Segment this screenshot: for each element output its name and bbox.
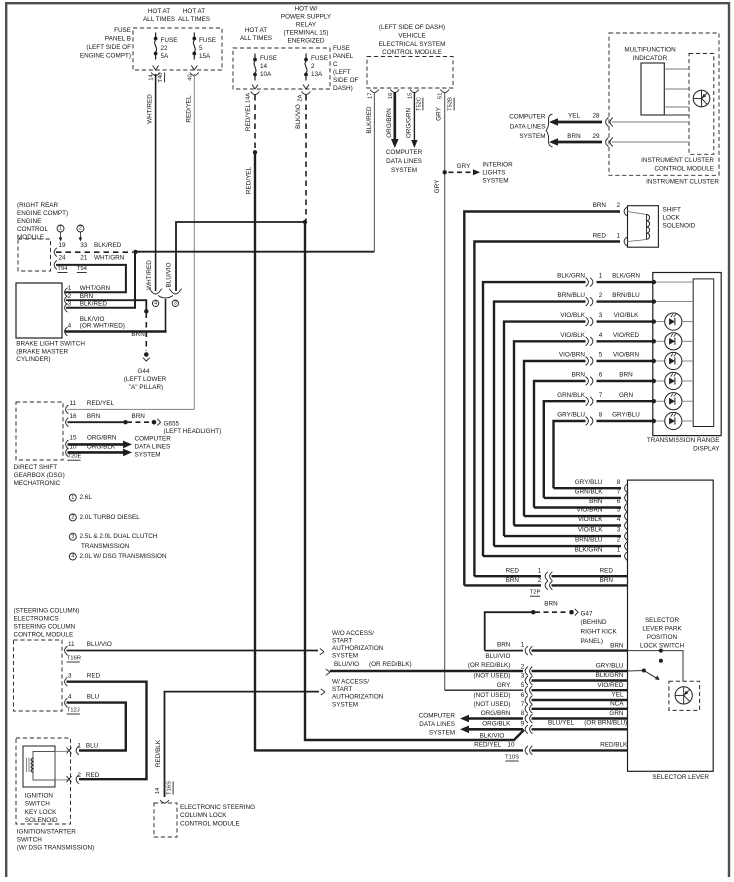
svg-text:40: 40: [187, 74, 193, 81]
svg-text:SYSTEM: SYSTEM: [429, 730, 455, 737]
footnote 1: 2.6L: [69, 494, 76, 501]
fuse panel B exit connector pin 40: [191, 66, 194, 71]
svg-text:17: 17: [368, 93, 374, 100]
svg-text:BLU/YEL: BLU/YEL: [548, 720, 575, 727]
connector on display row 3: [586, 317, 589, 326]
fuse F22 5A: [155, 33, 157, 39]
svg-text:15: 15: [70, 435, 78, 442]
svg-text:BRN/BLU: BRN/BLU: [612, 292, 640, 299]
DSG pin 10 connector and labels ORG/BLK: [66, 448, 69, 457]
indicator lamp symbol (clock): [693, 90, 710, 107]
svg-text:DIRECT SHIFT: DIRECT SHIFT: [14, 464, 58, 471]
svg-text:4: 4: [154, 301, 157, 307]
wire GRY/BLU pin 8 from selector riser to transmission range display: [554, 421, 586, 488]
svg-text:T94: T94: [57, 266, 68, 272]
svg-text:16: 16: [388, 92, 394, 99]
svg-text:TRANSMISSION RANGE: TRANSMISSION RANGE: [647, 437, 720, 444]
svg-text:FUSE: FUSE: [333, 45, 350, 52]
DSG pin 11 connector and labels RED/YEL: [66, 405, 69, 414]
wire row 7 to selector lever connector (lower): [544, 497, 621, 499]
svg-text:"A" PILLAR): "A" PILLAR): [129, 384, 163, 391]
svg-text:PANEL: PANEL: [333, 53, 354, 60]
svg-text:INSTRUMENT CLUSTER: INSTRUMENT CLUSTER: [646, 178, 719, 185]
svg-text:(NOT USED): (NOT USED): [474, 701, 511, 708]
footnote 4: 2.0L w/ DSG transmission: [69, 553, 76, 560]
svg-text:14A: 14A: [245, 93, 251, 104]
svg-text:SYSTEM: SYSTEM: [332, 701, 358, 708]
svg-text:SWITCH: SWITCH: [17, 837, 42, 844]
svg-text:(OR RED/BLK): (OR RED/BLK): [369, 661, 412, 668]
svg-text:RED: RED: [87, 672, 101, 679]
svg-text:HOT AT: HOT AT: [148, 8, 170, 15]
svg-text:T94: T94: [77, 266, 88, 272]
svg-text:10: 10: [508, 742, 516, 749]
wire BLK/GRN pin 1 from selector riser to transmission range display: [483, 282, 586, 556]
svg-text:DATA LINES: DATA LINES: [386, 158, 422, 165]
wire VIO/BLK pin 4 from selector riser to transmission range display: [514, 341, 586, 525]
svg-text:8: 8: [521, 710, 525, 717]
svg-text:RED: RED: [506, 568, 520, 575]
svg-text:3: 3: [174, 301, 177, 307]
svg-text:16: 16: [70, 413, 78, 420]
solenoid lead to pin 2: [55, 779, 68, 781]
wire BRN from brake pin 2 to ground G44 (solid then dashed): [66, 300, 146, 310]
svg-text:(W/ DSG TRANSMISSION): (W/ DSG TRANSMISSION): [17, 845, 94, 852]
svg-text:21: 21: [80, 254, 88, 261]
wire BRN/BLU pin 2 from selector riser to transmission range display: [494, 302, 586, 546]
fuse F5 15A: [193, 33, 195, 39]
svg-text:(TERMINAL 15): (TERMINAL 15): [284, 30, 329, 37]
wire BLK/VIO from fuse 2 - dashed segment to splice: [305, 95, 307, 220]
svg-text:POSITION: POSITION: [647, 634, 678, 641]
svg-text:SHIFT: SHIFT: [663, 206, 681, 213]
svg-text:IGNITION/STARTER: IGNITION/STARTER: [17, 829, 76, 836]
svg-text:SOLENOID: SOLENOID: [25, 817, 58, 824]
node GRY splice to interior lights: [443, 170, 447, 174]
wire VIO/BLK pin 3 from selector riser to transmission range display: [504, 322, 586, 536]
svg-text:ALL TIMES: ALL TIMES: [143, 16, 175, 23]
svg-text:2.5L & 2.0L DUAL CLUTCH: 2.5L & 2.0L DUAL CLUTCH: [80, 533, 158, 540]
ECM pin connector arcs row 2: [54, 261, 57, 270]
wire BLK/RED solid from splice to VECSM pin 17 riser: [135, 251, 374, 253]
svg-text:NCA: NCA: [610, 701, 624, 708]
svg-text:C: C: [333, 61, 338, 68]
svg-text:W/ ACCESS/: W/ ACCESS/: [332, 679, 369, 686]
svg-text:(LEFT: (LEFT: [333, 69, 351, 76]
svg-text:SELECTOR LEVER: SELECTOR LEVER: [652, 774, 709, 781]
svg-text:ELECTRICAL SYSTEM: ELECTRICAL SYSTEM: [379, 41, 446, 48]
svg-text:GRY/BLU: GRY/BLU: [596, 663, 624, 670]
svg-text:DASH): DASH): [333, 85, 353, 92]
svg-text:CONTROL: CONTROL: [17, 226, 48, 233]
svg-text:RED/YEL: RED/YEL: [474, 742, 502, 749]
svg-text:T10S: T10S: [505, 754, 519, 760]
svg-text:BRN: BRN: [497, 642, 511, 649]
svg-text:3: 3: [521, 673, 525, 680]
svg-text:(LEFT HEADLIGHT): (LEFT HEADLIGHT): [164, 428, 222, 435]
wire YEL 28 thick arrow to computer data lines: [549, 118, 558, 126]
svg-text:VIO/BLK: VIO/BLK: [560, 332, 585, 339]
svg-text:ENGINE COMPT): ENGINE COMPT): [80, 53, 131, 60]
svg-text:3: 3: [71, 534, 74, 540]
svg-text:LEVER PARK: LEVER PARK: [642, 626, 682, 633]
svg-text:7: 7: [599, 392, 603, 399]
svg-text:4: 4: [68, 323, 72, 330]
svg-text:BRN: BRN: [131, 331, 145, 338]
T10S pin 8 row ORG/BRN arrow to computer data lines: [467, 717, 523, 720]
svg-text:COMPUTER: COMPUTER: [419, 713, 456, 720]
svg-text:28: 28: [592, 113, 600, 120]
SCCM pin 3 connector and labels RED: [65, 677, 68, 686]
wire BRN pin 6 from selector riser to transmission range display: [534, 381, 586, 508]
svg-text:ALL TIMES: ALL TIMES: [178, 16, 210, 23]
transmission range display box: [653, 273, 721, 436]
ECM pin connector arcs row 1: [54, 248, 57, 257]
svg-text:BLU/VIO: BLU/VIO: [165, 262, 172, 287]
svg-text:MECHATRONIC: MECHATRONIC: [14, 480, 61, 487]
fuse panel C exit connector 14A: [252, 85, 255, 90]
svg-text:BLU/VIO: BLU/VIO: [485, 653, 510, 660]
svg-text:START: START: [332, 686, 352, 693]
svg-text:BRN: BRN: [80, 293, 94, 300]
svg-text:GRY/BLU: GRY/BLU: [557, 412, 585, 419]
wire ORG/BRN thick arrow to computer data lines (DSG): [68, 443, 124, 446]
node at display box edge row 5: [652, 359, 656, 363]
wire GRN/BLK pin 7 from selector riser to transmission range display: [544, 401, 586, 498]
T10S pin 2 row BLU/VIO (OR RED/BLK) to GRY/BLU: [326, 669, 330, 672]
svg-text:VIO/BLK: VIO/BLK: [578, 527, 603, 534]
svg-text:VIO/BRN: VIO/BRN: [613, 352, 640, 359]
instrument cluster outer dashed box: [609, 33, 719, 175]
wire BRN from DSG pin 16 to ground G655: [68, 421, 125, 423]
T10S pin 1 row BRN: [485, 650, 523, 652]
park switch fixed contact: [659, 659, 663, 663]
wire RED from riser through T2P to selector lever: [474, 575, 541, 577]
brake switch pin 1 connector and label WHT/GRN: [65, 288, 68, 297]
svg-text:CONTROL MODULE: CONTROL MODULE: [654, 165, 714, 172]
footnote 3: 2.5L and 2.0L dual clutch transmission: [69, 533, 76, 540]
connector at instrument cluster pin 28: [606, 118, 609, 127]
park position lock switch lamp symbol: [675, 687, 692, 704]
svg-text:ENGINE COMPT): ENGINE COMPT): [17, 210, 68, 217]
svg-text:ENGINE: ENGINE: [17, 218, 41, 225]
svg-text:BRN: BRN: [572, 372, 586, 379]
svg-text:CONTROL MODULE: CONTROL MODULE: [14, 632, 74, 639]
svg-text:COMPUTER: COMPUTER: [386, 149, 423, 156]
svg-text:RED: RED: [593, 232, 607, 239]
svg-text:POWER SUPPLY: POWER SUPPLY: [281, 14, 332, 21]
wire from electronic steering column lock to w/ access arrow: [165, 692, 320, 797]
svg-text:14: 14: [155, 787, 161, 794]
wire RED from SCCM pin 3 to key lock solenoid pin 2: [67, 682, 147, 780]
svg-text:ORG/BLK: ORG/BLK: [482, 721, 511, 728]
svg-text:KEY LOCK: KEY LOCK: [25, 809, 57, 816]
svg-text:ELECTRONICS: ELECTRONICS: [14, 616, 59, 623]
svg-text:2.0L TURBO DIESEL: 2.0L TURBO DIESEL: [80, 514, 141, 521]
svg-text:FUSE: FUSE: [260, 55, 277, 62]
SCCM pin 11 connector and labels BLU/VIO: [65, 646, 68, 655]
fuse F14 10A: [254, 54, 256, 60]
svg-text:T40: T40: [158, 72, 164, 83]
svg-text:BLK/VIO: BLK/VIO: [480, 732, 505, 739]
svg-text:HOT W/: HOT W/: [295, 6, 318, 13]
svg-text:CONTROL MODULE: CONTROL MODULE: [180, 821, 240, 828]
svg-text:11: 11: [68, 641, 75, 648]
svg-text:CYLINDER): CYLINDER): [16, 356, 50, 363]
svg-text:AUTHORIZATION: AUTHORIZATION: [332, 645, 384, 652]
svg-text:GRN/BLK: GRN/BLK: [575, 489, 604, 496]
svg-text:MODULE: MODULE: [17, 234, 44, 241]
DSG pin 16 connector and labels BRN: [66, 418, 69, 427]
park switch internal BRN wire: [628, 651, 684, 681]
svg-text:2: 2: [617, 537, 621, 544]
svg-text:PANEL B: PANEL B: [105, 36, 131, 43]
svg-text:GRY: GRY: [497, 682, 511, 689]
svg-text:VIO/RED: VIO/RED: [597, 682, 624, 689]
svg-text:7: 7: [521, 701, 525, 708]
wire row 4 to selector lever connector (lower): [514, 524, 621, 526]
svg-text:14: 14: [260, 63, 268, 70]
svg-text:11: 11: [70, 400, 77, 407]
svg-text:29: 29: [592, 133, 600, 140]
svg-text:BLK/GRN: BLK/GRN: [557, 273, 585, 280]
svg-text:AUTHORIZATION: AUTHORIZATION: [332, 694, 384, 701]
svg-text:BRN: BRN: [600, 577, 614, 584]
multifunction indicator rectangle: [641, 63, 664, 115]
svg-text:13A: 13A: [311, 71, 323, 78]
svg-text:(RIGHT REAR: (RIGHT REAR: [17, 202, 59, 209]
svg-text:RED/YEL: RED/YEL: [245, 103, 252, 131]
svg-text:G44: G44: [138, 368, 150, 375]
svg-text:19: 19: [58, 242, 66, 249]
svg-text:BRN: BRN: [619, 372, 633, 379]
svg-text:SELECTOR: SELECTOR: [645, 617, 679, 624]
svg-text:GRY: GRY: [434, 179, 441, 193]
svg-text:RELAY: RELAY: [296, 22, 317, 29]
svg-text:BRN: BRN: [132, 413, 146, 420]
LED indicator row 3: [656, 321, 665, 323]
wire row 3 to selector lever connector (lower): [504, 535, 621, 537]
svg-text:IGNITION: IGNITION: [25, 793, 54, 800]
svg-text:WHT/RED: WHT/RED: [146, 260, 153, 290]
wire ORG/BLK thick arrow to computer data lines (DSG): [68, 451, 124, 454]
svg-text:T52C: T52C: [416, 97, 422, 111]
svg-text:SYSTEM: SYSTEM: [482, 177, 508, 184]
svg-text:2.0L W/ DSG TRANSMISSION: 2.0L W/ DSG TRANSMISSION: [80, 553, 167, 560]
fuse F2 13A: [305, 54, 307, 60]
svg-text:ORG/BRN: ORG/BRN: [481, 710, 511, 717]
VECSM pin 17 connector cup: [370, 90, 379, 93]
connector on display row 6: [586, 377, 589, 386]
svg-text:1: 1: [68, 285, 72, 292]
merged wire from connectors 3/4 down to brake switch pin 4: [158, 296, 173, 299]
svg-text:BLK/GRN: BLK/GRN: [612, 273, 640, 280]
wire RED from T2P pin 1 up to shift lock solenoid pin 1: [474, 242, 620, 577]
node at display box edge row 7: [652, 399, 656, 403]
fuse panel C exit connector 2A: [303, 85, 306, 90]
svg-text:(BRAKE MASTER: (BRAKE MASTER: [16, 348, 68, 355]
svg-text:WHT/GRN: WHT/GRN: [94, 254, 125, 261]
wire BRN from riser through T2P to selector lever: [464, 584, 541, 586]
LED indicator row 6: [656, 380, 665, 382]
svg-text:BLK/GRN: BLK/GRN: [575, 547, 603, 554]
SCCM pin 4 connector and labels BLU: [65, 698, 68, 707]
svg-text:GRN: GRN: [609, 710, 624, 717]
fuse panel B dashed box: [133, 28, 222, 70]
svg-text:W/O ACCESS/: W/O ACCESS/: [332, 630, 374, 637]
svg-text:BRN/BLU: BRN/BLU: [575, 537, 603, 544]
svg-text:BLK/RED: BLK/RED: [80, 301, 108, 308]
wire RED/YEL gray from DSG pin 11 to fuse 5 riser: [68, 408, 195, 410]
wire VIO/BRN pin 5 from selector riser to transmission range display: [524, 361, 586, 516]
svg-text:5: 5: [199, 45, 203, 52]
svg-text:BRN: BRN: [506, 577, 520, 584]
svg-text:(LEFT LOWER: (LEFT LOWER: [124, 376, 167, 383]
ground G655 symbol: [152, 420, 157, 425]
VECSM pin 51 connector cup: [440, 90, 449, 93]
svg-text:3: 3: [68, 672, 72, 679]
svg-text:RED/BLK: RED/BLK: [600, 742, 628, 749]
svg-text:BLU/VIO: BLU/VIO: [87, 641, 112, 648]
ignition switch key lock solenoid box: [23, 746, 55, 787]
svg-text:RED/YEL: RED/YEL: [87, 400, 115, 407]
svg-text:1: 1: [617, 547, 621, 554]
svg-text:1: 1: [77, 743, 81, 750]
svg-text:COMPUTER: COMPUTER: [509, 114, 546, 121]
svg-text:4: 4: [68, 693, 72, 700]
svg-text:6: 6: [521, 692, 525, 699]
brake switch pin 4 connector and labels BLK/VIO (OR WHT/RED): [65, 327, 68, 336]
engine control module dashed box: [18, 239, 51, 271]
svg-text:VEHICLE: VEHICLE: [398, 32, 425, 39]
svg-text:BLK/GRN: BLK/GRN: [596, 672, 624, 679]
svg-text:BRN: BRN: [567, 133, 581, 140]
wire BLU/VIO from SCCM pin 11 to w/o access arrow: [67, 650, 319, 652]
svg-text:GEARBOX (DSG): GEARBOX (DSG): [14, 472, 65, 479]
svg-text:RED: RED: [600, 568, 614, 575]
svg-text:RED/YEL: RED/YEL: [185, 95, 192, 123]
svg-text:START: START: [332, 637, 352, 644]
fuse panel C dashed box: [233, 48, 330, 89]
svg-text:BRN: BRN: [593, 202, 607, 209]
svg-text:LOCK: LOCK: [663, 214, 681, 221]
svg-text:T12J: T12J: [67, 707, 80, 713]
svg-text:DATA LINES: DATA LINES: [135, 444, 171, 451]
svg-text:3: 3: [599, 312, 603, 319]
svg-text:RED/BLK: RED/BLK: [155, 739, 162, 767]
wire BRN 29 thick arrow to computer data lines: [549, 138, 558, 146]
svg-text:SYSTEM: SYSTEM: [135, 452, 161, 459]
svg-text:GRN/BLK: GRN/BLK: [557, 392, 586, 399]
VECSM pin 16 connector cup: [390, 90, 399, 93]
wire RED/YEL from fuse 14 - dashed segment to splice: [254, 95, 256, 150]
svg-text:2A: 2A: [297, 94, 303, 101]
svg-text:51: 51: [438, 93, 444, 100]
svg-text:(LEFT SIDE OF: (LEFT SIDE OF: [86, 44, 131, 51]
svg-text:GRY/BLU: GRY/BLU: [612, 412, 640, 419]
wire ORG/BRN thick arrow to computer data lines: [393, 92, 396, 139]
svg-text:ORG/BLK: ORG/BLK: [87, 443, 116, 450]
svg-text:1: 1: [59, 226, 62, 232]
svg-text:2: 2: [77, 772, 81, 779]
svg-text:BRN: BRN: [544, 601, 558, 608]
svg-text:COMPUTER: COMPUTER: [135, 436, 172, 443]
svg-text:2: 2: [616, 202, 620, 209]
svg-text:SIDE OF: SIDE OF: [333, 77, 359, 84]
svg-text:8: 8: [599, 412, 603, 419]
svg-text:BLK/RED: BLK/RED: [94, 242, 122, 249]
circled footnote ref 2 above ECM pin 33: [77, 225, 84, 232]
wire GRY from VECSM pin 51 down to T10S pin 5: [444, 92, 446, 690]
wire RED/YEL solid down to corner and right to T10S pin 10: [255, 152, 523, 750]
LED indicator row 5: [656, 360, 665, 362]
shift lock solenoid coil: [628, 212, 647, 215]
svg-text:RED/YEL: RED/YEL: [246, 166, 253, 194]
connector on display row 2: [586, 297, 589, 306]
svg-text:HOT AT: HOT AT: [245, 27, 267, 34]
wire BLK/RED gray riser from VECSM pin 17: [373, 92, 375, 252]
svg-text:PANEL): PANEL): [581, 638, 603, 645]
svg-text:VIO/BLK: VIO/BLK: [614, 312, 639, 319]
svg-text:GRY: GRY: [435, 106, 442, 120]
DSG mechatronic dashed box: [16, 402, 63, 460]
svg-text:VIO/BRN: VIO/BRN: [559, 352, 586, 359]
svg-text:LIGHTS: LIGHTS: [482, 169, 505, 176]
steering column control module dashed box: [14, 640, 63, 711]
svg-text:YEL: YEL: [568, 113, 580, 120]
svg-text:LOCK SWITCH: LOCK SWITCH: [640, 642, 684, 649]
node at display box edge row 8: [652, 419, 656, 423]
svg-text:5: 5: [521, 682, 525, 689]
svg-text:10: 10: [70, 443, 78, 450]
svg-text:(NOT USED): (NOT USED): [474, 692, 511, 699]
wire row 8 to selector lever connector (lower): [554, 487, 622, 489]
open arrow to w/o access start authorization system: [320, 649, 324, 652]
svg-text:HOT AT: HOT AT: [183, 8, 205, 15]
inline connector with circled 3 (BLU/VIO): [171, 291, 180, 294]
ground G47 symbol: [569, 610, 574, 615]
svg-text:22: 22: [161, 45, 169, 52]
svg-text:INSTRUMENT CLUSTER: INSTRUMENT CLUSTER: [641, 157, 714, 164]
svg-text:BRAKE LIGHT SWITCH: BRAKE LIGHT SWITCH: [16, 341, 85, 348]
connector on display row 5: [586, 357, 589, 366]
park position lock switch lamp dashed box: [669, 681, 700, 710]
svg-text:T16S: T16S: [167, 781, 173, 795]
svg-text:FUSE: FUSE: [114, 27, 131, 34]
display inner module rectangle: [693, 279, 714, 427]
brake switch pin 2 connector and label BRN: [65, 296, 68, 305]
splice node on RED/YEL wire: [253, 150, 257, 154]
park switch internal GRY/BLU wire and blade: [628, 670, 644, 673]
svg-text:SYSTEM: SYSTEM: [519, 133, 545, 140]
connector on display row 8: [586, 417, 589, 426]
svg-text:ENERGIZED: ENERGIZED: [287, 38, 324, 45]
svg-text:INDICATOR: INDICATOR: [633, 55, 668, 62]
svg-text:BRN/BLU: BRN/BLU: [558, 292, 586, 299]
svg-text:SYSTEM: SYSTEM: [391, 167, 417, 174]
key lock solenoid coil symbol: [33, 752, 55, 781]
LED indicator row 7: [656, 400, 665, 402]
svg-text:COLUMN LOCK: COLUMN LOCK: [180, 812, 227, 819]
svg-text:G47: G47: [581, 610, 593, 617]
svg-text:FUSE: FUSE: [199, 37, 216, 44]
svg-text:2: 2: [599, 292, 603, 299]
svg-text:24: 24: [58, 254, 66, 261]
svg-text:ELECTRONIC STEERING: ELECTRONIC STEERING: [180, 804, 255, 811]
LED indicator row 4: [656, 340, 665, 342]
svg-text:T16R: T16R: [67, 655, 81, 661]
connector on display row 1: [586, 278, 589, 287]
